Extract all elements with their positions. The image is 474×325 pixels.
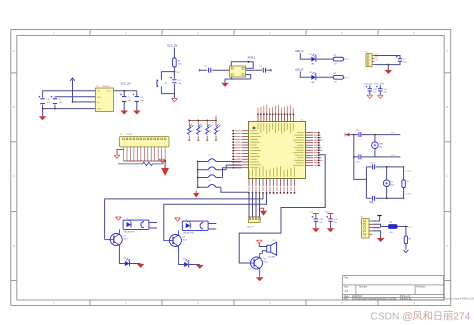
svg-text:MK1: MK1	[379, 144, 383, 146]
svg-text:LED: LED	[311, 64, 315, 66]
svg-text:L1: L1	[209, 154, 211, 156]
svg-text:D: D	[13, 244, 15, 248]
svg-text:SPK: SPK	[369, 201, 374, 203]
svg-text:A4: A4	[345, 289, 349, 293]
svg-text:GND: GND	[97, 97, 102, 99]
svg-text:D:\Projects\demo\board\SheetDo: D:\Projects\demo\board\SheetDoc1.SchDoc	[352, 298, 398, 301]
svg-text:SOUND: SOUND	[268, 257, 275, 259]
svg-text:10u: 10u	[319, 222, 322, 224]
svg-text:XTAL1: XTAL1	[248, 56, 256, 59]
svg-text:R7: R7	[406, 181, 408, 183]
svg-text:2023/5/21: 2023/5/21	[352, 296, 363, 298]
svg-text:Title: Title	[344, 277, 349, 280]
svg-text:L4: L4	[209, 180, 211, 182]
svg-text:VOUT: VOUT	[106, 91, 112, 93]
svg-text:C17: C17	[334, 219, 337, 221]
svg-text:9013: 9013	[124, 238, 128, 240]
svg-text:LED_R: LED_R	[295, 68, 303, 71]
svg-text:File:: File:	[344, 299, 349, 301]
svg-text:RELAY-SPDT: RELAY-SPDT	[183, 232, 195, 235]
svg-text:10u: 10u	[59, 102, 62, 104]
svg-text:LED_G: LED_G	[295, 50, 303, 53]
svg-text:LOUT-: LOUT-	[406, 194, 413, 196]
svg-text:B1: B1	[391, 182, 393, 184]
svg-text:L2: L2	[209, 163, 211, 165]
svg-text:CON13: CON13	[126, 134, 132, 136]
svg-text:D: D	[446, 244, 448, 248]
svg-text:10u: 10u	[373, 92, 376, 94]
svg-text:VCC_5V: VCC_5V	[121, 82, 131, 86]
svg-text:Number: Number	[359, 286, 367, 289]
svg-text:Q1: Q1	[124, 236, 127, 238]
svg-text:C12: C12	[356, 130, 359, 132]
svg-text:Date:: Date:	[344, 295, 350, 298]
svg-text:D3: D3	[124, 258, 126, 260]
svg-text:Sheet of: Sheet of	[402, 295, 411, 298]
svg-text:C11: C11	[384, 89, 387, 91]
svg-text:D4: D4	[183, 259, 185, 261]
svg-text:RST: RST	[176, 72, 181, 74]
svg-text:C13: C13	[356, 162, 359, 164]
svg-text:C14: C14	[370, 162, 373, 164]
svg-text:B: B	[13, 105, 15, 109]
svg-text:Revision: Revision	[417, 287, 427, 289]
svg-text:VCC_5V: VCC_5V	[167, 44, 177, 48]
svg-text:10u: 10u	[384, 92, 387, 94]
svg-text:L3: L3	[209, 170, 211, 172]
svg-text:LOUT+: LOUT+	[406, 171, 414, 173]
svg-text:LED: LED	[311, 82, 315, 84]
svg-text:RELAY-SPDT: RELAY-SPDT	[124, 231, 136, 234]
svg-text:470: 470	[390, 232, 393, 234]
svg-text:CSDN @风和日丽274: CSDN @风和日丽274	[371, 310, 471, 322]
svg-text:A: A	[447, 49, 449, 53]
svg-text:GND: GND	[97, 109, 102, 111]
svg-text:10u: 10u	[140, 100, 143, 102]
svg-text:VCC_5V: VCC_5V	[364, 84, 372, 86]
svg-text:AMS1117: AMS1117	[103, 85, 111, 88]
svg-text:AB-001: AB-001	[247, 226, 255, 229]
svg-text:LS1: LS1	[273, 240, 276, 242]
svg-text:Sheet1 of board.PrjPcb.SchDoc: Sheet1 of board.PrjPcb.SchDoc	[445, 298, 474, 301]
svg-text:VCC: VCC	[345, 59, 350, 61]
svg-text:C16: C16	[319, 219, 322, 221]
svg-text:GND: GND	[374, 57, 379, 59]
svg-text:9013: 9013	[264, 261, 268, 263]
svg-text:Q2: Q2	[183, 237, 186, 239]
svg-text:C: C	[446, 174, 448, 178]
svg-text:Q4: Q4	[264, 259, 267, 261]
svg-text:VCC: VCC	[345, 77, 350, 79]
svg-text:10u: 10u	[334, 222, 337, 224]
svg-text:R9: R9	[409, 239, 411, 241]
svg-text:C: C	[13, 174, 15, 178]
svg-text:VCC_3V3: VCC_3V3	[375, 84, 385, 86]
svg-text:9013: 9013	[183, 239, 187, 241]
svg-text:C10: C10	[373, 89, 376, 91]
svg-text:B: B	[447, 105, 449, 109]
svg-text:V12: V12	[310, 212, 313, 214]
svg-text:R8: R8	[390, 222, 392, 224]
svg-text:A: A	[13, 49, 15, 53]
